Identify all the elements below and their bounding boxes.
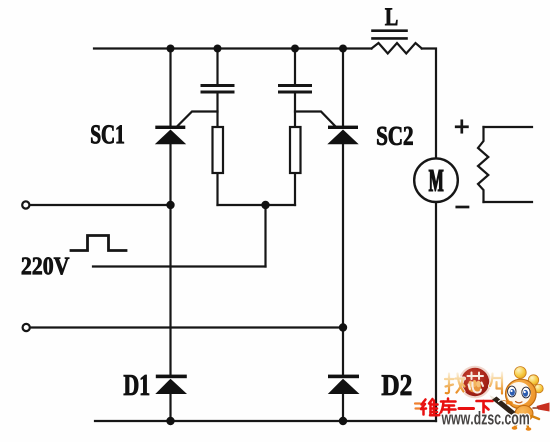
field resistor top lead (484, 126, 533, 128)
wire motor bottom down to bottom bus (435, 202, 437, 421)
wire C1 to R1 (216, 93, 218, 127)
label SC1 (91, 125, 124, 143)
capacitor C1 plate bottom (202, 91, 233, 94)
wire C2 to R2 (294, 93, 296, 127)
wire upper AC terminal lead (30, 204, 171, 206)
label - (field minus) (457, 206, 468, 209)
mascot mouth (516, 402, 523, 403)
label D2 (382, 375, 411, 395)
wire C1 column: bus to C1 (216, 49, 218, 85)
node upper AC to SC1 column (166, 201, 174, 209)
wire R1-R2 bottom link (218, 204, 296, 206)
node top bus 3 (291, 45, 299, 53)
wire trigger drop from link node (264, 205, 266, 267)
diode D2 (328, 375, 360, 394)
label M (motor) (429, 170, 443, 191)
wire 220V trigger line (93, 265, 266, 267)
wire SC1 column: bus to SC1 bar (169, 49, 171, 128)
field resistor zigzag (478, 127, 488, 202)
node D2 bottom bus (339, 417, 347, 425)
node lower AC to SC2 column (339, 323, 347, 331)
inductor L core bar 1 (373, 29, 407, 32)
mascot eyes (508, 386, 516, 397)
watermark char pian (chip) (490, 373, 502, 394)
terminal upper AC (22, 201, 29, 208)
capacitor C2 plate bottom (280, 91, 311, 94)
wire bottom bus (95, 420, 436, 422)
watermark seal circle behind char xin (460, 367, 490, 397)
gate wire SC1 (177, 112, 218, 128)
wire R2 bottom to link (294, 173, 296, 205)
mascot legs (515, 416, 539, 428)
wire top bus (94, 47, 372, 49)
terminal lower AC (23, 324, 30, 331)
wire D1 to bottom bus (169, 394, 171, 421)
mascot head (506, 379, 537, 409)
watermark char xia (down, red) (477, 401, 493, 416)
resistor R2 body (290, 127, 301, 173)
label D1 (124, 375, 149, 395)
mascot arm and pen (490, 395, 516, 415)
inductor L core bar 2 (373, 37, 407, 40)
watermark red ticks left of wei (415, 404, 420, 409)
wire inductor to motor corner (422, 49, 436, 159)
label L (385, 8, 397, 25)
mascot tail whisk (537, 403, 550, 412)
gate wire SC2 (295, 112, 336, 128)
watermark mascot (506, 367, 550, 431)
capacitor C1 plate top (202, 84, 233, 87)
watermark char ku (red) (440, 399, 456, 416)
wire D2 to bottom bus (342, 394, 344, 421)
mascot antenna stems (520, 374, 536, 389)
watermark char wei (red) (421, 399, 438, 415)
watermark char yi (one, red) (459, 407, 474, 410)
inductor L zigzag (372, 43, 422, 54)
node top bus 4 (339, 45, 347, 53)
wire lower AC terminal lead (30, 326, 343, 328)
thyristor SC1 (155, 126, 186, 145)
watermark char zhao (find) (445, 374, 464, 394)
pulse waveform symbol (71, 236, 126, 251)
wire C2 column: bus to C2 (294, 49, 296, 85)
thyristor SC2 (327, 126, 358, 145)
wire SC1 column: SC1 to D1 (169, 144, 171, 375)
wire SC2 column: bus to SC2 bar (342, 49, 344, 128)
capacitor C2 plate top (280, 84, 311, 87)
watermark fist inside seal (468, 380, 481, 393)
watermark char xin (core) grass radical on seal (468, 373, 484, 393)
resistor R1 body (213, 127, 224, 173)
node top bus 1 (167, 45, 175, 53)
mascot antenna balls (514, 367, 526, 379)
watermark group (415, 367, 550, 431)
node D1 bottom bus (166, 417, 174, 425)
diode D1 (155, 375, 187, 394)
mascot body (515, 406, 533, 422)
wire R1 bottom to link (216, 173, 218, 205)
motor circle (414, 158, 458, 202)
label + (field plus) (456, 121, 467, 132)
watermark www.dzsc.com (442, 411, 530, 425)
wire SC2 to D2 (342, 144, 344, 375)
node link center (261, 201, 269, 209)
node top bus 2 (214, 45, 222, 53)
label 220V (22, 257, 69, 274)
mascot face (507, 382, 531, 405)
field resistor bottom lead (484, 201, 533, 203)
label SC2 (377, 127, 412, 145)
